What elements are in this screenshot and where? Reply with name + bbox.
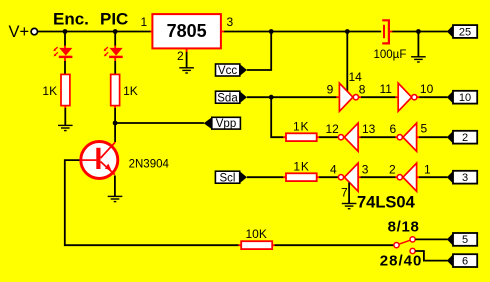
tag Scl bbox=[215, 171, 247, 184]
svg-text:25: 25 bbox=[459, 26, 471, 38]
wire 10K to switch bbox=[272, 244, 275, 246]
wire throw2 to tag6 bbox=[415, 251, 447, 261]
capacitor 100uF right plate bracket bbox=[382, 20, 389, 43]
svg-text:Scl: Scl bbox=[220, 172, 236, 184]
wire Sda node to row2 resistor bbox=[271, 97, 283, 137]
junction node rail Vcc bbox=[269, 29, 274, 34]
LED D1 Enc bbox=[53, 47, 72, 57]
junction node rail Enc bbox=[63, 29, 68, 34]
inverter U1F pins 1-2 bbox=[397, 163, 416, 191]
svg-text:7: 7 bbox=[341, 185, 348, 199]
wire U1F in to tag3 bbox=[417, 176, 420, 178]
wire R Enc to ground bbox=[64, 106, 66, 109]
switch throw 8/18 bbox=[410, 237, 415, 242]
terminal V+ bbox=[31, 28, 37, 34]
svg-text:Vcc: Vcc bbox=[218, 65, 237, 77]
wire Sda to inverter U1A input bbox=[247, 96, 337, 98]
svg-text:8/18: 8/18 bbox=[388, 219, 420, 236]
wire cap to tag25 bbox=[392, 31, 447, 33]
svg-text:12: 12 bbox=[326, 122, 340, 136]
switch SW1 blade bbox=[399, 240, 410, 244]
wire R PIC to Vpp node bbox=[114, 106, 116, 109]
inverter U1B pins 11-10 bbox=[398, 83, 417, 111]
svg-text:6: 6 bbox=[390, 122, 397, 136]
svg-text:Vpp: Vpp bbox=[216, 118, 236, 130]
tag Sda bbox=[216, 91, 247, 104]
svg-text:Enc.: Enc. bbox=[53, 9, 89, 28]
inverter U1D pins 5-6 bbox=[397, 123, 416, 151]
wire U1B out to tag10 bbox=[417, 96, 420, 98]
svg-text:2: 2 bbox=[462, 132, 468, 144]
switch throw 28/40 bbox=[410, 248, 415, 253]
resistor 1K PIC bbox=[111, 74, 120, 105]
svg-text:10: 10 bbox=[420, 82, 434, 96]
wire throw1 to tag5 bbox=[415, 238, 447, 240]
wire U1E in to U1F out bbox=[358, 176, 361, 178]
svg-text:3: 3 bbox=[362, 163, 369, 177]
svg-text:3: 3 bbox=[227, 15, 234, 29]
resistor 1K Enc bbox=[61, 74, 70, 105]
svg-text:9: 9 bbox=[327, 83, 334, 97]
resistor 1K row2 bbox=[286, 133, 317, 141]
svg-text:1: 1 bbox=[141, 15, 148, 29]
svg-text:1: 1 bbox=[424, 163, 431, 177]
regulator 7805 bbox=[152, 14, 221, 48]
junction node rail cap-gnd bbox=[416, 29, 421, 34]
svg-text:Sda: Sda bbox=[217, 92, 238, 104]
wire top rail left bbox=[38, 31, 151, 33]
ground under R Enc bbox=[58, 125, 73, 130]
junction node rail PIC bbox=[113, 29, 118, 34]
svg-text:2: 2 bbox=[177, 49, 184, 63]
wire stub 7805 pin3 bbox=[221, 31, 224, 33]
wire U1D in to tag2 bbox=[417, 136, 420, 138]
svg-text:28/40: 28/40 bbox=[380, 253, 423, 270]
tag 3 bbox=[447, 171, 477, 184]
LED D2 PIC bbox=[104, 47, 123, 57]
wire stub 7805 pin1 bbox=[150, 31, 153, 33]
resistor 1K row3 bbox=[286, 173, 317, 181]
ground under cap bbox=[411, 57, 426, 62]
ground under pin7 bbox=[342, 204, 357, 209]
wire pin7 to ground bbox=[348, 183, 350, 204]
junction node rail pin14 bbox=[345, 29, 350, 34]
svg-text:100µF: 100µF bbox=[374, 49, 407, 61]
ground under Q1 bbox=[108, 196, 123, 201]
svg-text:1K: 1K bbox=[42, 84, 57, 98]
wire stub cap right bbox=[390, 31, 393, 33]
wire LED PIC anode bbox=[114, 32, 116, 47]
wire LED Enc anode bbox=[64, 32, 66, 47]
svg-text:1K: 1K bbox=[123, 84, 138, 98]
inverter U1A pins 9-8 bbox=[339, 83, 358, 111]
wire Vpp node to tag bbox=[115, 122, 204, 124]
wire cap junction to ground bbox=[417, 32, 419, 57]
tag 10 bbox=[447, 91, 477, 104]
ground under 7805 bbox=[179, 68, 194, 73]
svg-text:13: 13 bbox=[362, 122, 376, 136]
wire base loop bbox=[65, 160, 239, 245]
tag Vcc bbox=[216, 64, 247, 77]
wire Vpp node to collector bbox=[114, 123, 116, 142]
wire 7805 pin2 bbox=[186, 49, 188, 53]
wire top rail right bbox=[224, 31, 381, 33]
wire LED PIC cathode bbox=[114, 58, 116, 61]
svg-text:11: 11 bbox=[380, 82, 393, 96]
wire pin14 drop bbox=[346, 32, 348, 92]
wire LED Enc cathode bbox=[64, 58, 66, 61]
junction node Vpp bbox=[113, 121, 118, 126]
tag 6 bbox=[447, 254, 477, 267]
svg-text:5: 5 bbox=[462, 234, 468, 246]
switch pole bbox=[394, 243, 399, 248]
svg-text:3: 3 bbox=[462, 172, 468, 184]
wire emitter to ground bbox=[114, 176, 116, 197]
svg-text:74LS04: 74LS04 bbox=[357, 193, 416, 211]
svg-text:1K: 1K bbox=[293, 119, 309, 133]
tag 2 bbox=[447, 131, 477, 144]
svg-text:2N3904: 2N3904 bbox=[129, 159, 170, 171]
wire U1A out to U1B in bbox=[359, 96, 362, 98]
tag Vpp bbox=[204, 117, 241, 130]
svg-text:10K: 10K bbox=[246, 227, 267, 241]
svg-text:7805: 7805 bbox=[167, 21, 207, 41]
inverter U1C pins 13-12 bbox=[338, 123, 358, 151]
wire row2 resistor to U1C out bbox=[317, 136, 320, 138]
junction node Sda bbox=[269, 95, 274, 100]
svg-text:1K: 1K bbox=[293, 159, 309, 173]
svg-text:V+: V+ bbox=[9, 23, 30, 41]
wire Scl to row3 resistor bbox=[247, 176, 284, 178]
svg-text:10: 10 bbox=[459, 92, 471, 104]
svg-text:2: 2 bbox=[389, 163, 396, 177]
inverter U1E pins 3-4 bbox=[338, 163, 358, 191]
svg-text:PIC: PIC bbox=[100, 9, 128, 28]
transistor Q1 2N3904 bbox=[81, 142, 118, 179]
tag 25 bbox=[447, 25, 477, 38]
tag 5 bbox=[447, 233, 477, 246]
svg-text:8: 8 bbox=[359, 83, 366, 97]
capacitor 100uF left plate bbox=[383, 25, 385, 38]
svg-text:4: 4 bbox=[330, 162, 337, 176]
svg-text:5: 5 bbox=[421, 122, 428, 136]
resistor 10K bbox=[241, 241, 272, 249]
wire U1C in to U1D out bbox=[358, 136, 361, 138]
wire row3 resistor to U1E out bbox=[317, 176, 320, 178]
wire Vcc tag to rail bbox=[247, 32, 271, 71]
svg-text:6: 6 bbox=[462, 255, 468, 267]
